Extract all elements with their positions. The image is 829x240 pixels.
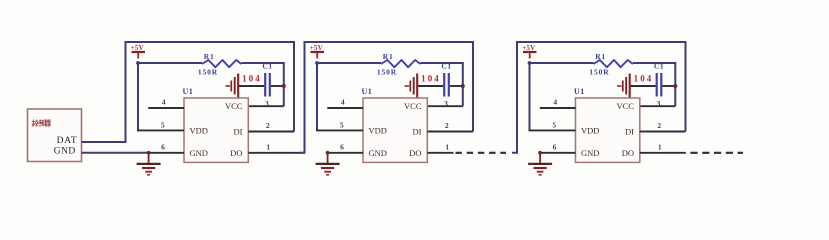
svg-text:3: 3 xyxy=(444,99,448,108)
controller box xyxy=(28,109,82,162)
svg-text:VDD: VDD xyxy=(581,125,599,135)
svg-text:+5V: +5V xyxy=(310,44,323,52)
svg-text:2: 2 xyxy=(657,121,661,130)
svg-text:150R: 150R xyxy=(377,68,397,77)
svg-text:U1: U1 xyxy=(362,87,373,96)
wire: DO of previous stage up and over to DI of U1 (block 2) xyxy=(300,42,474,153)
wire: DO of previous stage up and over to DI of U1 (block 3) xyxy=(512,42,686,153)
svg-text:R1: R1 xyxy=(383,52,394,61)
wire: GND from controller to pin 6 (block 1) xyxy=(82,152,185,154)
svg-text:104: 104 xyxy=(634,74,654,84)
svg-text:4: 4 xyxy=(553,98,557,107)
svg-text:6: 6 xyxy=(553,143,557,152)
wire: pin 2 stub DI (block 2) xyxy=(427,131,473,133)
wire: pin 5 stub VDD (block 1) xyxy=(137,129,184,131)
capacitor C1 (block 2) xyxy=(444,73,449,97)
svg-text:VDD: VDD xyxy=(190,125,208,135)
wire: capacitor row to right rail with junction (block 1) xyxy=(239,84,286,88)
wire: capacitor row to right rail with junction (block 2) xyxy=(418,84,465,88)
resistor R1 (block 1) xyxy=(202,60,241,67)
wire: pin 2 stub DI (block 1) xyxy=(248,131,294,133)
svg-text:U1: U1 xyxy=(574,87,585,96)
resistor R1 (block 2) xyxy=(381,60,420,67)
svg-text:DO: DO xyxy=(230,148,242,158)
wire: pin 2 stub DI (block 3) xyxy=(640,131,686,133)
wire: +5V down to VDD pin 5 (block 1) xyxy=(137,63,139,130)
wire: +5V down to VDD pin 5 (block 3) xyxy=(529,63,531,130)
svg-text:DI: DI xyxy=(413,126,422,136)
wire: pin 3 stub VCC (block 3) xyxy=(640,105,676,107)
capacitor C2 polarized, red (block 2) xyxy=(405,74,418,98)
wire: +5V down to VDD pin 5 (block 2) xyxy=(316,63,318,130)
svg-text:1: 1 xyxy=(445,142,449,151)
svg-text:R1: R1 xyxy=(595,52,606,61)
capacitor C1 (block 3) xyxy=(657,73,662,97)
svg-text:6: 6 xyxy=(161,143,165,152)
wire: DO output pin 1 (block 3) xyxy=(640,152,686,154)
svg-text:C1: C1 xyxy=(654,62,664,71)
wire: DAT from controller up and over to DI of U1 (block 1) xyxy=(82,42,295,142)
wire: capacitor row to right rail with junction (block 3) xyxy=(631,84,678,88)
svg-text:4: 4 xyxy=(341,98,345,107)
op-amp U1 IC body (block 3) xyxy=(576,98,640,162)
svg-text:DAT: DAT xyxy=(57,136,78,146)
svg-text:DI: DI xyxy=(234,126,243,136)
svg-text:5: 5 xyxy=(161,121,165,130)
svg-text:VCC: VCC xyxy=(225,101,243,111)
op-amp U1 IC body (block 2) xyxy=(363,98,427,162)
ground (block 2) xyxy=(316,151,340,175)
power +5V (block 2) xyxy=(310,44,324,59)
svg-text:3: 3 xyxy=(657,99,661,108)
wire: pin 3 stub VCC (block 2) xyxy=(427,105,463,107)
wire: pin 4 stub NC (block 3) xyxy=(540,107,576,109)
svg-text:+5V: +5V xyxy=(131,44,144,52)
svg-text:C1: C1 xyxy=(441,62,451,71)
wire: pin 5 stub VDD (block 2) xyxy=(316,129,363,131)
svg-text:VCC: VCC xyxy=(617,101,635,111)
svg-text:+5V: +5V xyxy=(522,44,535,52)
svg-text:2: 2 xyxy=(445,121,449,130)
svg-text:GND: GND xyxy=(581,148,599,158)
wire: DO output pin 1 (block 2) xyxy=(427,152,453,154)
svg-text:3: 3 xyxy=(265,99,269,108)
ground (block 1) xyxy=(137,151,161,175)
svg-text:104: 104 xyxy=(421,74,441,84)
svg-text:C1: C1 xyxy=(262,62,272,71)
svg-text:VCC: VCC xyxy=(404,101,422,111)
svg-text:DO: DO xyxy=(622,148,634,158)
svg-text:1: 1 xyxy=(266,142,270,151)
svg-text:2: 2 xyxy=(266,121,270,130)
svg-text:DI: DI xyxy=(625,126,634,136)
svg-text:GND: GND xyxy=(54,147,76,157)
power +5V (block 1) xyxy=(131,44,145,59)
svg-text:U1: U1 xyxy=(183,87,194,96)
svg-text:150R: 150R xyxy=(589,68,609,77)
wire: pin 5 stub VDD (block 3) xyxy=(529,129,576,131)
wire: dashed continuation to next stage (block 2) xyxy=(456,152,507,154)
wire: ground to pin 6 (block 3) xyxy=(539,152,576,154)
svg-text:GND: GND xyxy=(369,148,387,158)
svg-text:104: 104 xyxy=(242,74,262,84)
resistor R1 (block 3) xyxy=(594,60,633,67)
svg-text:4: 4 xyxy=(162,98,166,107)
svg-text:1: 1 xyxy=(658,142,662,151)
capacitor C2 polarized, red (block 1) xyxy=(226,74,239,98)
wire: +5V rail to R1, down right side to VCC pin 3 (block 1) xyxy=(136,61,284,106)
wire: dashed continuation off page (block 3) xyxy=(690,152,743,154)
wire: +5V rail to R1, down right side to VCC pin 3 (block 3) xyxy=(528,61,676,106)
capacitor C1 (block 1) xyxy=(265,73,270,97)
wire: pin 4 stub NC (block 1) xyxy=(148,107,184,109)
wire: +5V rail to R1, down right side to VCC pin 3 (block 2) xyxy=(315,61,463,106)
svg-text:GND: GND xyxy=(190,148,208,158)
wire: pin 3 stub VCC (block 1) xyxy=(248,105,283,107)
ground (block 3) xyxy=(528,151,552,175)
wire: ground to pin 6 (block 2) xyxy=(326,152,363,154)
power +5V (block 3) xyxy=(522,44,536,59)
op-amp U1 IC body (block 1) xyxy=(184,98,248,162)
svg-text:5: 5 xyxy=(552,121,556,130)
svg-text:6: 6 xyxy=(340,143,344,152)
wire: pin 4 stub NC (block 2) xyxy=(327,107,363,109)
svg-text:5: 5 xyxy=(340,121,344,130)
svg-text:R1: R1 xyxy=(204,52,215,61)
label 控制器 (controller) xyxy=(32,120,50,127)
svg-text:VDD: VDD xyxy=(369,125,387,135)
svg-text:DO: DO xyxy=(409,148,421,158)
capacitor C2 polarized, red (block 3) xyxy=(617,74,630,98)
svg-text:150R: 150R xyxy=(198,68,218,77)
wire: DO output pin 1 to next stage (block 1) xyxy=(248,152,304,154)
